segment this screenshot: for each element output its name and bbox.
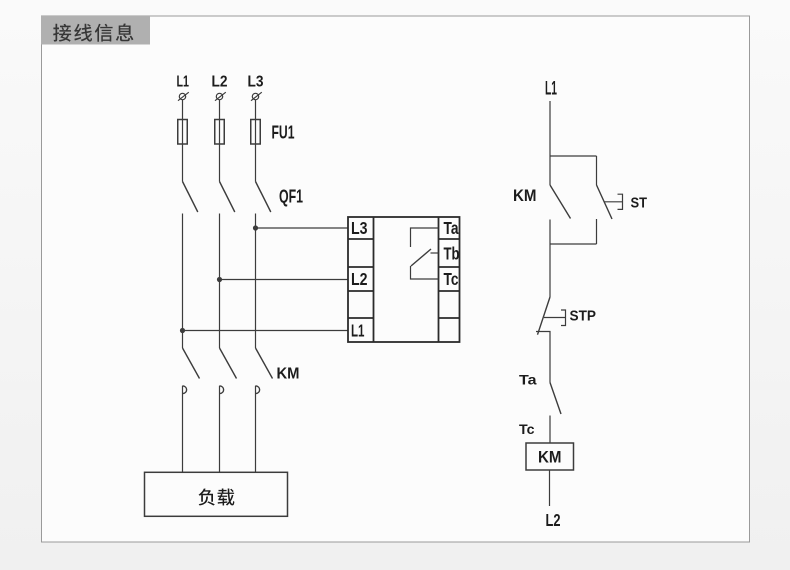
terminal L2: [215, 92, 226, 101]
pushbutton ST actuator: [604, 194, 623, 209]
breaker QF1 pole 1 blade: [183, 182, 198, 213]
wire: [255, 386, 257, 473]
terminal loop: [183, 386, 187, 394]
wire L3 to block: [256, 227, 349, 229]
wire: [219, 100, 221, 182]
terminal loop: [256, 386, 260, 394]
contact blade: [411, 249, 431, 266]
label QF1: [279, 187, 303, 207]
title bar 接线信息: [41, 16, 150, 45]
label Ta: [519, 372, 537, 388]
pushbutton ST blade: [597, 185, 613, 219]
svg-text:L2: L2: [351, 269, 368, 289]
wire ST branch upper: [596, 156, 598, 185]
junction node L2-tap: [218, 278, 222, 282]
svg-text:QF1: QF1: [279, 187, 303, 207]
contactor KM pole 1 blade: [183, 348, 200, 379]
svg-text:L1: L1: [351, 321, 365, 341]
wire: [182, 100, 184, 182]
svg-text:L2: L2: [212, 73, 228, 90]
terminal L1: [178, 92, 189, 101]
label KM: [277, 366, 300, 383]
wire: [219, 214, 221, 349]
junction node L3-tap: [254, 226, 258, 230]
svg-text:KM: KM: [277, 366, 300, 383]
svg-text:KM: KM: [538, 448, 562, 467]
terminal loop: [220, 386, 224, 394]
terminal L3: [251, 92, 262, 101]
relay block U1 frame: [348, 217, 460, 342]
svg-text:Tc: Tc: [519, 421, 535, 437]
wire L2 to block: [220, 279, 349, 281]
wire: [182, 214, 184, 349]
svg-text:Ta: Ta: [519, 372, 537, 388]
coil KM: [526, 443, 574, 470]
wire ST branch lower: [596, 219, 598, 244]
wire: [549, 416, 551, 444]
wire STP lower terminal: [536, 332, 550, 383]
contactor KM pole 3 blade: [256, 348, 273, 379]
breaker QF1 pole 3 blade: [256, 182, 271, 213]
fuse FU1 pole 1: [178, 120, 188, 145]
label Tc: [519, 421, 535, 437]
wire parallel bottom: [550, 243, 597, 245]
contact Ta blade: [550, 383, 561, 415]
svg-text:STP: STP: [570, 308, 597, 325]
pushbutton STP actuator: [544, 310, 566, 326]
label STP: [570, 308, 597, 325]
svg-text:L3: L3: [248, 73, 264, 90]
wire Tb stub: [431, 252, 439, 254]
svg-text:KM: KM: [513, 186, 537, 205]
wire: [549, 220, 551, 298]
svg-text:L1: L1: [177, 73, 190, 90]
label FU1: [272, 123, 295, 143]
svg-text:Ta: Ta: [444, 218, 459, 238]
svg-text:Tc: Tc: [444, 269, 459, 289]
wire: [549, 470, 551, 506]
wire: [219, 386, 221, 473]
wire Tc feed: [411, 266, 439, 279]
wire Ta feed: [411, 228, 439, 247]
node L2: [212, 73, 228, 90]
pushbutton STP blade: [538, 297, 551, 335]
contactor aux KM blade: [550, 185, 571, 219]
svg-text:L2: L2: [546, 510, 561, 530]
wire parallel top: [550, 155, 597, 157]
contactor KM pole 2 blade: [220, 348, 237, 379]
fuse FU1 pole 2: [215, 120, 225, 145]
svg-text:ST: ST: [631, 195, 648, 212]
node L1 (control): [545, 79, 557, 100]
svg-text:L3: L3: [351, 218, 368, 238]
svg-text:Tb: Tb: [444, 244, 460, 264]
wire: [255, 100, 257, 182]
junction node L1-tap: [181, 329, 185, 333]
wire L1 to block: [183, 330, 349, 332]
label KM (aux): [513, 186, 537, 205]
svg-text:FU1: FU1: [272, 123, 295, 143]
node L2 (control): [546, 510, 561, 530]
internal changeover contact of U1: [411, 228, 439, 279]
fuse FU1 pole 3: [251, 120, 261, 145]
label ST: [631, 195, 648, 212]
load box 负载: [145, 472, 288, 516]
node L3: [248, 73, 264, 90]
svg-text:L1: L1: [545, 79, 557, 100]
wire: [255, 214, 257, 349]
wire: [549, 101, 551, 185]
wire: [182, 386, 184, 473]
breaker QF1 pole 2 blade: [220, 182, 235, 213]
node L1: [177, 73, 190, 90]
